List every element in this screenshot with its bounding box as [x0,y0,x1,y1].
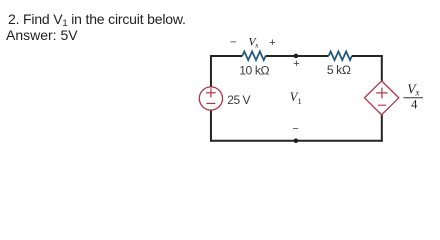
wire: bottom horizontal segment [210,140,383,142]
polarity minus sign of V1 node voltage [292,123,298,135]
resistor R1 10 kOhm zigzag [242,52,265,61]
svg-text:−: − [292,123,298,135]
wire: right vertical upper segment from top-right corner to dependent source [381,55,383,81]
svg-text:Vx: Vx [407,81,419,97]
wire: right vertical lower segment from dependent source to bottom-right corner [381,115,383,142]
svg-text:V1: V1 [290,90,302,106]
voltage label V1 (unknown) [290,90,302,106]
wire: top right segment from R2 to top-right corner [352,55,383,57]
polarity minus sign of Vx across R1 [230,37,236,49]
value label 5 kOhm [327,63,351,77]
resistor R2 5 kOhm zigzag [329,52,352,61]
svg-text:+: + [293,58,299,70]
svg-text:4: 4 [411,97,418,111]
wire: left vertical lower segment from source V1 to bottom-left corner [210,110,212,142]
controlling label Vx/4 of dependent source: numerator Vx [407,81,419,97]
svg-text:5 kΩ: 5 kΩ [327,63,351,77]
wire: left vertical upper segment from top-left corner to source V1 [210,55,212,87]
problem title text [8,12,186,27]
controlling label Vx/4: denominator 4 [411,97,418,111]
polarity plus sign of V1 node voltage [293,58,299,70]
wire: top-left horizontal segment from top-left corner to R1 [210,55,242,57]
voltage source V1 25 V (independent, circle symbol) [199,87,222,110]
controlling label Vx/4: fraction bar [404,97,423,99]
dependent voltage source Vx/4 (diamond symbol) [365,81,399,115]
voltage label Vx across R1 [249,37,260,50]
node B junction dot on bottom wire [294,138,299,143]
node A junction dot on top wire [294,54,299,59]
svg-text:25 V: 25 V [227,93,250,107]
svg-text:+: + [269,37,275,49]
svg-text:−: − [230,37,236,49]
svg-text:Vx: Vx [249,37,260,50]
value label 25 V [227,93,250,107]
polarity plus sign of Vx across R1 [269,37,275,49]
wire: top middle segment from R1 to node A [266,55,329,57]
value label 10 kOhm [239,63,269,77]
answer text [6,28,78,42]
svg-text:10 kΩ: 10 kΩ [239,63,269,77]
